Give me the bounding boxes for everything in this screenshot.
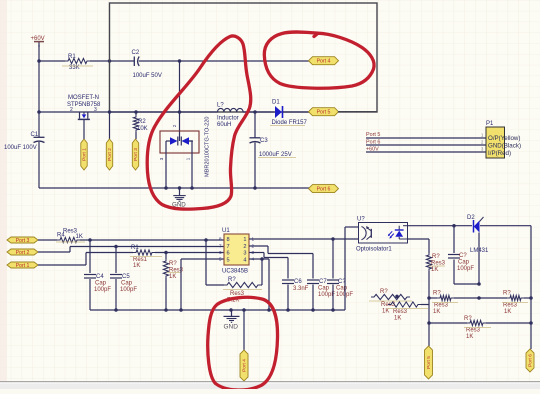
port Port 1 (bottom-left) — [7, 262, 38, 269]
svg-text:GND(Black): GND(Black) — [488, 143, 521, 150]
wire — [38, 61, 40, 112]
svg-text:2: 2 — [243, 244, 246, 250]
svg-text:100pF: 100pF — [94, 287, 111, 293]
wire fb line — [429, 297, 531, 299]
svg-text:1K: 1K — [76, 234, 83, 240]
svg-text:MBR20100CTG-TO-220: MBR20100CTG-TO-220 — [205, 116, 211, 177]
svg-text:P1: P1 — [486, 121, 494, 127]
svg-text:1K: 1K — [504, 309, 511, 315]
svg-text:100pF: 100pF — [120, 287, 137, 293]
inductor L? — [217, 103, 243, 128]
ground GND (bottom) — [224, 310, 240, 331]
svg-text:Res3: Res3 — [393, 309, 408, 315]
svg-text:Optoisolator1: Optoisolator1 — [356, 247, 392, 253]
node — [178, 110, 182, 114]
wire MBR pin1 down — [189, 141, 192, 188]
svg-text:R?: R? — [228, 277, 236, 283]
svg-text:R1: R1 — [68, 54, 76, 60]
svg-text:1K: 1K — [433, 309, 440, 315]
wire port2 up — [109, 112, 111, 139]
node — [108, 110, 112, 114]
wire opto right-top — [408, 225, 531, 227]
wire R7 left vertical — [205, 240, 207, 285]
wire pin6 line — [38, 253, 133, 266]
capacitor C3 — [250, 112, 297, 188]
wire pin1 line — [249, 238, 358, 240]
svg-text:O/P(Yellow): O/P(Yellow) — [488, 135, 520, 142]
svg-text:Port 6: Port 6 — [528, 354, 534, 367]
svg-text:3: 3 — [159, 157, 164, 160]
svg-text:C7: C7 — [319, 279, 327, 285]
wire — [39, 60, 65, 62]
svg-text:10K: 10K — [137, 126, 148, 132]
wire pin8 line — [38, 239, 224, 241]
port Port 6 (bottom) — [526, 349, 534, 372]
annotation loop 1 (around MBR) — [147, 36, 251, 209]
svg-text:Port 5: Port 5 — [426, 356, 432, 369]
svg-text:C?: C? — [459, 253, 467, 259]
svg-text:UC3845B: UC3845B — [222, 269, 248, 275]
svg-text:Res3: Res3 — [466, 328, 481, 334]
svg-text:R1: R1 — [131, 245, 139, 251]
svg-text:Inductor: Inductor — [217, 116, 239, 122]
wire — [243, 111, 274, 113]
svg-text:I/P(Red): I/P(Red) — [488, 150, 511, 157]
wire — [139, 60, 309, 62]
svg-text:2: 2 — [172, 124, 177, 127]
op-amp U1 UC3845B — [219, 228, 255, 275]
svg-text:2: 2 — [70, 107, 73, 113]
svg-text:5: 5 — [219, 257, 222, 262]
annotation loop 3 (around bottom GND / Port 4) — [208, 297, 278, 390]
wire sheet bottom — [338, 111, 377, 113]
svg-text:8: 8 — [227, 237, 230, 243]
svg-text:Port 5: Port 5 — [366, 132, 380, 138]
port Port 5 (bottom) — [425, 346, 433, 379]
capacitor C? (right) — [448, 226, 474, 284]
capacitor C? (mid) — [327, 239, 353, 310]
wire — [38, 45, 40, 61]
svg-text:1K: 1K — [466, 334, 473, 340]
node — [114, 245, 118, 249]
svg-text:GND: GND — [224, 324, 239, 331]
svg-text:Port 3: Port 3 — [16, 238, 30, 244]
port Port 2 (bottom-left) — [7, 249, 38, 256]
svg-text:R?: R? — [503, 291, 511, 297]
wire pin5 line — [181, 259, 224, 310]
resistor R2 — [133, 112, 147, 139]
resistor R? (left vertical) — [163, 253, 183, 311]
svg-text:R?: R? — [432, 254, 440, 260]
svg-text:L?: L? — [217, 103, 224, 109]
wire MBR pin3 down — [165, 141, 167, 188]
svg-text:Cap: Cap — [336, 286, 348, 292]
node — [331, 237, 335, 241]
node — [164, 186, 257, 190]
power +60V — [31, 36, 45, 47]
svg-text:C1: C1 — [31, 132, 39, 138]
svg-text:C6: C6 — [294, 279, 302, 285]
node — [134, 110, 138, 114]
capacitor C5 — [110, 247, 137, 311]
wire — [283, 111, 309, 113]
svg-text:C5: C5 — [122, 274, 130, 280]
svg-text:7: 7 — [219, 243, 222, 248]
transistor Q1 MOSFET-N STP5NB758 — [67, 95, 101, 124]
svg-text:3: 3 — [94, 107, 97, 113]
capacitor C7 — [307, 254, 335, 311]
port Port 4 (bottom) — [240, 350, 248, 381]
wire P1 pin1 — [366, 132, 486, 138]
resistor R? (fb right) — [502, 291, 528, 316]
node — [452, 224, 456, 228]
svg-text:D2: D2 — [467, 215, 475, 221]
node — [477, 282, 481, 286]
svg-text:1: 1 — [243, 237, 246, 243]
svg-text:8: 8 — [219, 237, 222, 242]
wire P1 pin3 — [366, 146, 486, 152]
svg-text:7: 7 — [227, 244, 230, 250]
svg-text:4: 4 — [243, 257, 246, 263]
svg-text:100pF: 100pF — [457, 266, 474, 272]
resistor R1 — [62, 54, 93, 71]
resistor R? (float b) — [387, 302, 429, 322]
diode U2 MBR20100CTG — [159, 116, 210, 177]
node — [253, 110, 257, 114]
resistor R? (fb left) — [432, 291, 458, 316]
svg-text:LM431: LM431 — [470, 248, 489, 254]
svg-text:Port 3: Port 3 — [133, 148, 139, 161]
resistor R? (opto) — [426, 253, 445, 346]
svg-text:Port 4: Port 4 — [242, 359, 248, 372]
svg-text:1K: 1K — [382, 309, 389, 315]
svg-text:6: 6 — [219, 250, 222, 255]
node — [37, 59, 41, 63]
svg-text:Cap: Cap — [121, 281, 133, 287]
sheet box — [110, 3, 378, 112]
svg-text:Port 6: Port 6 — [366, 139, 380, 145]
svg-text:D1: D1 — [272, 100, 280, 106]
port Port 2 (top) — [106, 139, 113, 170]
resistor R? (lower) — [464, 316, 491, 340]
svg-text:3.3nF: 3.3nF — [293, 286, 309, 292]
port Port 3 (top) — [132, 139, 139, 170]
annotation loop 2 (around Port 4) — [264, 32, 374, 88]
optocoupler U? Optoisolator1 — [356, 217, 408, 253]
wire pin2 step — [249, 246, 313, 254]
svg-text:+60V: +60V — [366, 146, 379, 152]
svg-text:C3: C3 — [260, 138, 268, 144]
wire port4 down — [243, 310, 245, 350]
svg-text:Cap: Cap — [95, 281, 107, 287]
node — [37, 110, 41, 114]
svg-text:U?: U? — [357, 217, 365, 223]
resistor R1 (bottom) — [130, 245, 162, 269]
svg-text:Port 5: Port 5 — [317, 110, 331, 116]
window bottom edge — [0, 382, 540, 389]
svg-text:5: 5 — [227, 257, 230, 263]
svg-text:60uH: 60uH — [217, 122, 231, 128]
svg-text:R?: R? — [380, 289, 388, 295]
port Port 4 (top) — [309, 57, 339, 65]
svg-text:100uF 100V: 100uF 100V — [4, 145, 37, 151]
wire lower line — [429, 322, 531, 324]
node — [427, 296, 533, 300]
capacitor C2 — [132, 50, 162, 79]
svg-text:3: 3 — [243, 251, 246, 257]
svg-text:U1: U1 — [222, 228, 230, 234]
svg-text:Cap: Cap — [458, 260, 470, 266]
wire — [454, 283, 479, 285]
port Port 1 (top) — [81, 124, 88, 170]
wire pin7 line — [38, 247, 224, 253]
svg-text:R2: R2 — [138, 119, 146, 125]
node — [88, 238, 208, 242]
shunt regulator D2 LM431 — [467, 215, 489, 284]
node C2-out — [178, 59, 182, 63]
svg-text:C4: C4 — [96, 274, 104, 280]
svg-text:Cap: Cap — [318, 286, 330, 292]
svg-text:R?: R? — [464, 316, 472, 322]
capacitor C6 3.3nF — [282, 258, 309, 311]
node — [260, 257, 264, 261]
wire — [90, 60, 134, 62]
wire opto left-top — [345, 227, 358, 310]
wire gnd rail (bottom) — [90, 309, 345, 311]
wire P1 pin2 — [366, 139, 486, 145]
capacitor C1 — [4, 112, 45, 188]
svg-text:1K: 1K — [133, 263, 140, 269]
svg-text:+60V: +60V — [31, 36, 45, 42]
node R1-C2 — [108, 59, 112, 63]
svg-text:Diode FR157: Diode FR157 — [272, 120, 308, 126]
svg-text:Port 1: Port 1 — [16, 263, 30, 269]
wire pin4 line — [249, 259, 269, 310]
capacitor C4 — [84, 240, 111, 310]
svg-text:Res3: Res3 — [434, 303, 449, 309]
svg-text:100uF 50V: 100uF 50V — [133, 73, 162, 79]
node — [114, 308, 335, 312]
wire MBR pin2 up — [179, 61, 181, 137]
svg-text:C2: C2 — [132, 50, 140, 56]
wire — [155, 252, 224, 254]
resistor R4 — [56, 229, 85, 243]
resistor R7 5.1K — [206, 259, 262, 304]
svg-text:Port 4: Port 4 — [317, 59, 331, 65]
port Port 3 (bottom-left) — [7, 237, 38, 244]
svg-text:6: 6 — [227, 251, 230, 257]
wire opto right-bottom — [408, 239, 429, 253]
port Port 5 (top) — [309, 108, 339, 116]
wire bottom rail — [39, 187, 309, 189]
connector P1 — [486, 121, 521, 158]
wire — [39, 111, 218, 113]
svg-text:R?: R? — [169, 261, 177, 267]
svg-text:Port 1: Port 1 — [82, 148, 88, 161]
svg-text:1K: 1K — [394, 316, 401, 322]
svg-text:MOSFET-N: MOSFET-N — [68, 95, 99, 101]
svg-text:1K: 1K — [431, 267, 438, 273]
node — [427, 321, 533, 325]
svg-text:1K: 1K — [169, 274, 176, 280]
resistor R? (float a) — [369, 289, 412, 315]
svg-text:R?: R? — [433, 291, 441, 297]
svg-text:Port 2: Port 2 — [16, 250, 30, 256]
svg-text:Res3: Res3 — [503, 303, 518, 309]
wire pin3 step — [249, 253, 288, 258]
svg-text:Port 2: Port 2 — [107, 148, 113, 161]
svg-text:1: 1 — [186, 157, 191, 160]
node — [164, 251, 168, 255]
diode D1 FR157 — [270, 100, 308, 127]
ground GND (top) — [172, 186, 186, 208]
wire right vertical — [530, 226, 532, 349]
port Port 6 (top) — [309, 185, 339, 193]
svg-text:Port 6: Port 6 — [317, 187, 331, 193]
